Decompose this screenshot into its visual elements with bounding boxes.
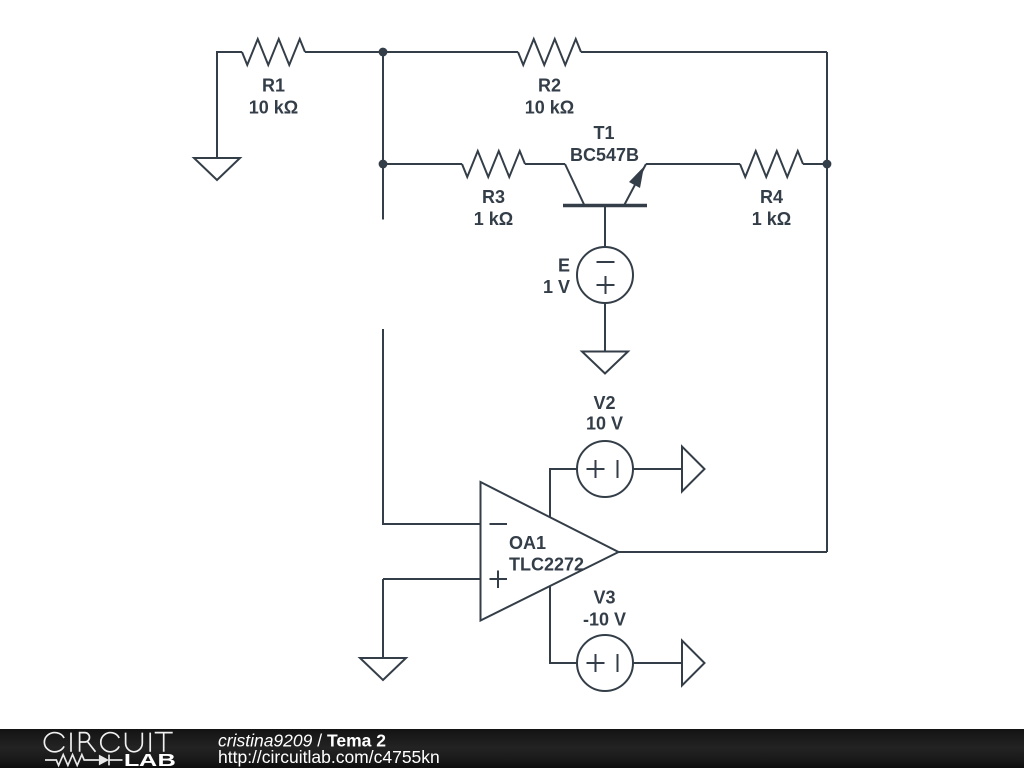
node B junction <box>379 160 388 169</box>
svg-text:R3: R3 <box>482 187 505 207</box>
svg-text:R4: R4 <box>760 187 783 207</box>
wire OA1 V- pin to V3 <box>550 587 577 664</box>
voltage source V2 <box>577 441 633 497</box>
svg-text:10 kΩ: 10 kΩ <box>525 98 574 118</box>
resistor R3 <box>462 151 525 177</box>
wire R2 to right rail <box>581 51 827 53</box>
svg-text:1 kΩ: 1 kΩ <box>752 209 791 229</box>
svg-text:L: L <box>124 750 139 768</box>
wire non-inverting to ground <box>382 579 384 658</box>
resistor R2 <box>518 39 581 65</box>
wire right rail <box>826 52 828 552</box>
node C junction right rail <box>823 160 832 169</box>
svg-text:R2: R2 <box>538 76 561 96</box>
footer bar <box>0 729 1024 768</box>
terminal arrow V2 <box>682 447 705 492</box>
transistor T1 <box>563 164 647 247</box>
wire V2 to terminal <box>633 468 682 470</box>
svg-text:A: A <box>139 750 158 768</box>
ground GND2 <box>582 352 628 374</box>
resistor R4 <box>740 151 803 177</box>
op-amp OA1 <box>481 482 619 621</box>
wire R3 to T1 collector <box>525 163 565 165</box>
node A junction <box>379 48 388 57</box>
svg-text:B: B <box>157 750 175 768</box>
svg-text:http://circuitlab.com/c4755kn: http://circuitlab.com/c4755kn <box>218 747 440 767</box>
voltage source V3 <box>577 635 633 691</box>
CircuitLab logo CIRCUIT <box>44 733 172 752</box>
svg-text:10 V: 10 V <box>586 414 623 434</box>
wire R1 left lead to ground <box>217 52 242 158</box>
wire V3 to terminal <box>633 662 682 664</box>
svg-text:OA1: OA1 <box>509 533 546 553</box>
ground GND3 <box>360 658 406 680</box>
svg-text:BC547B: BC547B <box>570 145 639 165</box>
svg-text:T1: T1 <box>593 123 614 143</box>
wire to OA1 non-inverting input <box>383 578 481 580</box>
wire R1 to node A <box>305 51 383 53</box>
wire R4 to right rail <box>803 163 827 165</box>
wire T1 emitter to R4 <box>646 163 740 165</box>
ground GND1 <box>194 158 240 180</box>
svg-text:10 kΩ: 10 kΩ <box>249 98 298 118</box>
svg-text:1 V: 1 V <box>543 277 570 297</box>
wire E to ground <box>604 303 606 352</box>
resistor R1 <box>242 39 305 65</box>
wire OA1 output to right rail <box>619 551 828 553</box>
wire dangling from node B <box>382 164 384 220</box>
svg-text:V2: V2 <box>593 393 615 413</box>
CircuitLab logo resistor-diode doodle <box>45 755 123 766</box>
wire to OA1 inverting input <box>383 329 481 524</box>
wire node A to R2 <box>383 51 518 53</box>
voltage source E <box>577 247 633 303</box>
svg-text:-10 V: -10 V <box>583 610 626 630</box>
svg-text:E: E <box>558 256 570 276</box>
svg-text:V3: V3 <box>593 588 615 608</box>
svg-text:TLC2272: TLC2272 <box>509 555 584 575</box>
CircuitLab logo LAB <box>124 750 176 768</box>
terminal arrow V3 <box>682 641 705 686</box>
svg-text:1 kΩ: 1 kΩ <box>474 209 513 229</box>
svg-text:R1: R1 <box>262 76 285 96</box>
wire OA1 V+ pin to V2 <box>550 469 577 518</box>
wire node B to R3 <box>383 163 462 165</box>
wire node A down to node B <box>382 52 384 164</box>
